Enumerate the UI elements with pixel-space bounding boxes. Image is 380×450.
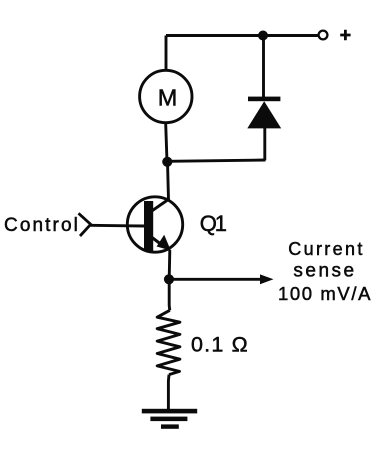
transistor Q1 (NPN) xyxy=(127,197,182,252)
motor M xyxy=(140,70,192,122)
wire: diode top lead xyxy=(262,36,265,98)
svg-text:100 mV/A: 100 mV/A xyxy=(278,283,372,304)
wire: diode bottom lead xyxy=(263,128,266,160)
resistor R1 zigzag xyxy=(157,310,180,374)
wire: resistor top lead xyxy=(168,279,172,310)
connector: control input chevron xyxy=(79,213,91,236)
svg-text:M: M xyxy=(158,84,178,110)
svg-text:0.1 Ω: 0.1 Ω xyxy=(191,332,249,356)
wire: motor bottom lead xyxy=(166,124,167,162)
terminal: + supply open circle xyxy=(319,31,328,40)
diode D1 (cathode bar + triangle, pointing up) xyxy=(247,97,281,129)
ground symbol xyxy=(142,409,197,429)
wire: resistor bottom lead xyxy=(167,375,171,410)
wire: emitter lead xyxy=(168,250,172,279)
wire: base lead xyxy=(91,224,145,228)
svg-text:Control: Control xyxy=(4,215,80,236)
svg-text:Current: Current xyxy=(288,239,364,259)
svg-text:Q1: Q1 xyxy=(200,211,227,236)
svg-text:sense: sense xyxy=(293,261,356,282)
wire: top supply rail xyxy=(166,34,319,37)
node: top junction (diode/supply) xyxy=(258,31,268,41)
wire: horizontal diode-to-collector-node xyxy=(167,160,266,161)
wire: current sense output line xyxy=(169,278,263,281)
arrowhead: current sense output xyxy=(260,274,274,284)
node: emitter/current-sense junction dot xyxy=(164,274,174,284)
wire: collector lead xyxy=(168,162,169,200)
wire: motor top lead xyxy=(165,36,168,70)
node: collector junction dot xyxy=(162,157,172,167)
label: + xyxy=(340,30,350,41)
